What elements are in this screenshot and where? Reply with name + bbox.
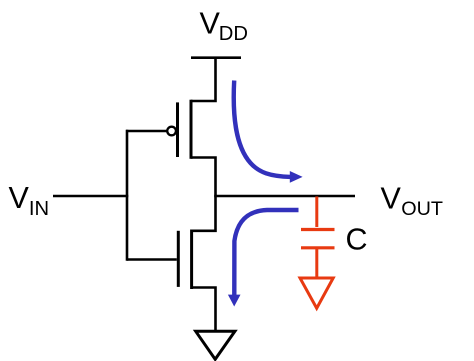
transistor Q2 NMOS channel bar [190,230,193,290]
transistor Q1 PMOS channel bar [190,100,193,159]
current arrow (blue, pull-down path) [234,210,298,295]
svg-text:V: V [9,181,30,215]
wire NMOS source to ground [192,288,216,332]
wire VDD to PMOS source [191,58,216,101]
wire gate junction vertical [126,130,129,261]
capacitor value label C [346,223,368,257]
wire VDD rail [191,56,241,59]
svg-text:V: V [200,6,221,40]
capacitor C top plate [301,228,335,231]
capacitor C bottom plate [301,246,335,249]
ground symbol (black) [196,331,235,359]
capacitor C top lead [315,197,318,228]
node VIN label [9,181,50,220]
svg-text:IN: IN [29,198,49,220]
transistor Q2 NMOS gate bar [177,231,180,287]
wire NMOS gate [127,258,177,261]
current arrow (blue, pull-up path) [234,81,291,177]
node VDD label [200,6,248,45]
transistor Q1 PMOS gate bar [176,102,179,157]
svg-text:OUT: OUT [401,198,443,220]
wire PMOS drain to output node [191,158,216,197]
capacitor C bottom lead [315,249,318,277]
wire output VOUT [214,195,355,198]
transistor Q1 PMOS gate bubble [167,127,176,136]
svg-text:C: C [346,223,368,257]
svg-text:DD: DD [219,23,248,45]
svg-text:V: V [381,182,402,216]
wire input VIN [53,195,128,198]
ground symbol (red) [300,278,333,308]
wire PMOS gate [126,130,167,133]
node VOUT label [381,182,443,221]
wire output node to NMOS drain [192,196,216,231]
